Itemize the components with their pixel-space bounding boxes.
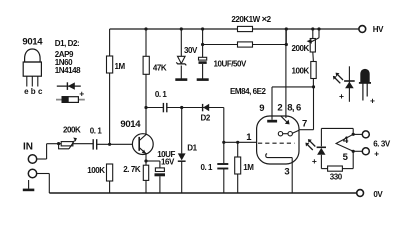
svg-text:IN: IN (23, 142, 33, 153)
wire IN ground to rail (37, 174, 50, 194)
svg-text:16V: 16V (161, 157, 175, 166)
wire screen (pin 9) (272, 87, 314, 120)
svg-text:1M: 1M (115, 62, 126, 71)
node zener rail (180, 27, 183, 30)
svg-text:+: + (374, 149, 379, 159)
ground (10UF/50V) (197, 78, 209, 81)
svg-text:b: b (31, 87, 36, 96)
wire 1M grid to rail (237, 174, 239, 193)
wire 100K to ground rail (109, 181, 111, 193)
svg-text:e: e (24, 87, 29, 96)
svg-text:200K: 200K (292, 44, 310, 53)
wire 47K top (145, 29, 147, 56)
node 1M grid top (236, 141, 239, 144)
svg-text:+: + (339, 91, 344, 101)
wire D1 to rail (181, 161, 183, 193)
resistor 220K 1W upper (238, 26, 253, 31)
svg-text:0. 1: 0. 1 (201, 163, 214, 172)
node pot top left (311, 27, 314, 30)
diode D1 (178, 153, 186, 161)
terminal 4 (362, 131, 369, 138)
wire pot to cap (73, 143, 93, 145)
svg-text:1: 1 (246, 132, 252, 143)
node 4 (352, 133, 355, 136)
wire 47K to collector (145, 74, 147, 134)
svg-text:D2: D2 (201, 114, 211, 123)
node 47K rail (144, 27, 147, 30)
wire emitter to 10UF (146, 161, 160, 168)
input attenuator wiring (37, 144, 61, 159)
wire cap to ground (202, 64, 204, 79)
deflection electrodes (circles) (278, 130, 299, 136)
resistor 2.7K (143, 165, 148, 180)
node 5 (352, 150, 355, 153)
terminal IN ground (28, 169, 36, 177)
capacitor 10UF/50V (199, 57, 207, 64)
node pin7 100K junction (312, 85, 315, 88)
tube EM84 envelope (257, 116, 299, 164)
screen electrode bar (267, 120, 277, 123)
zener wire from rail (180, 29, 182, 56)
capacitor 0.1 (collector coupling) (163, 103, 166, 112)
wire parallel branch right (285, 29, 287, 45)
ground (zener) (175, 78, 187, 81)
svg-text:8, 6: 8, 6 (287, 103, 301, 114)
wire 10UF to rail (159, 176, 161, 193)
svg-text:c: c (38, 87, 43, 96)
svg-text:100K: 100K (87, 166, 105, 175)
svg-text:2: 2 (277, 103, 282, 114)
node branch right bottom (285, 43, 288, 46)
wire collector node to cap 0.1 (146, 107, 163, 109)
wire zener to ground (180, 66, 182, 79)
node collector junction (144, 106, 147, 109)
resistor 330 (328, 166, 343, 171)
wire 1M grid top (237, 142, 239, 157)
node pin1 left (222, 141, 225, 144)
wire D2 corner down to pin1 node (223, 108, 225, 164)
wire LED to 330 (321, 155, 327, 169)
node emitter junction (144, 159, 147, 162)
wire node5 to terminal (353, 150, 362, 152)
svg-text:4: 4 (343, 135, 349, 146)
terminal 5 (362, 148, 369, 155)
wire cap to base (97, 143, 140, 145)
wire plate (pins 8,6) from rail (285, 29, 287, 118)
svg-text:6. 3V: 6. 3V (373, 140, 391, 149)
capacitor 10UF 16V (155, 168, 166, 176)
heater winding chevron (336, 134, 353, 151)
svg-text:HV: HV (373, 25, 384, 34)
node branch right top (285, 27, 288, 30)
potentiometer 200K (input) (59, 138, 77, 149)
resistor 100K (input) (107, 164, 113, 181)
LED package legend (359, 69, 371, 101)
capacitor 0.1 (grid) (217, 164, 228, 169)
bottom 0V rail wire (49, 192, 356, 194)
svg-text:7: 7 (302, 118, 307, 129)
wire pin 7 (299, 87, 314, 130)
diode D2 (203, 104, 210, 112)
wire collector (145, 130, 147, 134)
legend diode package drawing (56, 89, 85, 103)
svg-text:9014: 9014 (120, 119, 141, 130)
grid dashed line (pin 1) (258, 142, 295, 144)
wire 2.7K to rail (145, 180, 147, 193)
svg-text:1N4148: 1N4148 (55, 66, 81, 75)
svg-text:0. 1: 0. 1 (90, 127, 103, 136)
svg-text:D1: D1 (187, 143, 197, 152)
wire pin 3 (291, 158, 293, 193)
wire pot to 100K (312, 52, 315, 62)
svg-text:47K: 47K (153, 64, 167, 73)
LED symbol legend (333, 66, 355, 102)
svg-text:2. 7K: 2. 7K (123, 165, 141, 174)
node branch left top (201, 27, 204, 30)
svg-text:10UF/50V: 10UF/50V (214, 59, 248, 68)
svg-text:9014: 9014 (22, 36, 43, 47)
resistor 100K (HV) (311, 62, 316, 79)
LED indicator (heater) (305, 139, 326, 155)
wire 1M column top (109, 29, 111, 56)
terminal HV (359, 26, 366, 33)
svg-text:+: + (312, 156, 317, 166)
top HV rail wire (110, 28, 359, 30)
wire D1 top (181, 108, 183, 154)
svg-text:+: + (370, 96, 375, 106)
wire pin1 (224, 141, 257, 143)
svg-text:330: 330 (330, 172, 343, 181)
wire cap 10UF/50V top (202, 45, 204, 58)
wire 0.1 grid to rail (223, 169, 225, 194)
capacitor 0.1 (input) (93, 139, 97, 149)
wire 330 to node 5 (342, 151, 353, 168)
terminal IN hot (28, 155, 36, 163)
resistor 47K (143, 56, 149, 74)
svg-text:0. 1: 0. 1 (155, 90, 168, 99)
transistor package 9014 legend (23, 49, 41, 87)
svg-text:0V: 0V (373, 190, 383, 199)
svg-text:3: 3 (284, 166, 289, 177)
wire 100K to pin7 node (312, 79, 314, 87)
plate arrow inside tube (281, 116, 290, 124)
svg-text:30V: 30V (184, 46, 198, 55)
node D1 top (180, 106, 183, 109)
resistor 1M (grid) (235, 157, 241, 174)
wire emitter down (145, 154, 147, 165)
resistor 220K 1W lower (238, 42, 253, 47)
svg-text:100K: 100K (292, 66, 310, 75)
svg-text:9: 9 (259, 103, 264, 114)
ground (input) (23, 180, 35, 190)
node pot top right (317, 27, 320, 30)
svg-text:200K: 200K (63, 126, 81, 135)
transistor Q1 9014 (132, 134, 153, 155)
svg-text:5: 5 (343, 152, 349, 163)
wire 1M to base node (109, 73, 111, 144)
svg-text:+: + (79, 89, 84, 99)
wire node4 to terminal (353, 133, 362, 135)
svg-text:220K1W ×2: 220K1W ×2 (231, 14, 271, 25)
svg-text:EM84, 6E2: EM84, 6E2 (230, 87, 267, 96)
node pot left (57, 142, 60, 145)
node base junction (108, 143, 111, 146)
resistor 1M (left) (107, 56, 113, 73)
wire parallel branch lower (203, 44, 287, 46)
legend diode symbol (57, 82, 81, 90)
svg-text:1M: 1M (243, 163, 254, 172)
zener diode 30V (176, 56, 186, 65)
wire parallel branch left (202, 29, 204, 45)
svg-text:D1, D2:: D1, D2: (55, 39, 79, 48)
heater circuit top wire (321, 128, 353, 146)
wire cap to D2 to corner (167, 107, 224, 109)
node branch left bottom (201, 43, 204, 46)
potentiometer 200K (HV) (307, 29, 319, 52)
terminal 0V (357, 190, 364, 197)
cathode / heater (266, 154, 292, 158)
